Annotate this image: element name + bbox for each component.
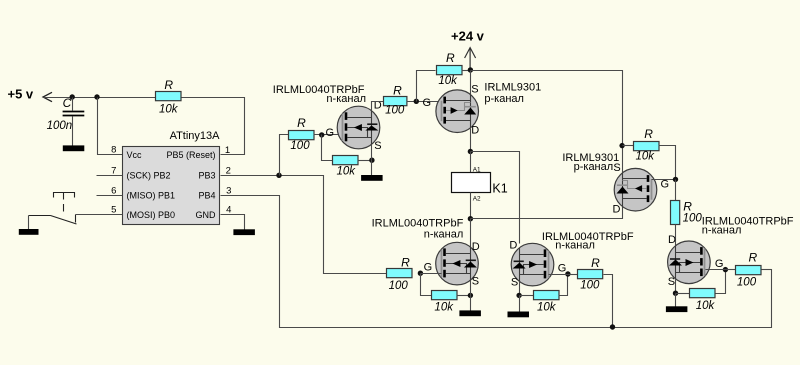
svg-text:R: R xyxy=(446,51,455,65)
svg-text:S: S xyxy=(374,140,381,152)
wire button ground lead xyxy=(28,216,30,230)
resistor R7 100 xyxy=(671,201,680,225)
svg-text:100: 100 xyxy=(737,277,757,289)
transistor Q1 IRLML0040TRPbF n-channel xyxy=(337,106,380,149)
svg-text:10k: 10k xyxy=(636,150,656,162)
svg-text:R: R xyxy=(748,251,757,265)
svg-text:10k: 10k xyxy=(438,75,458,87)
wire gate node to R7 xyxy=(675,180,677,201)
wire Q3 source to ground xyxy=(470,281,472,311)
svg-text:100: 100 xyxy=(389,280,409,292)
ground Q6 ground xyxy=(666,306,688,312)
node PB4 bus junction xyxy=(610,324,615,329)
node Q6 gate node xyxy=(723,267,728,272)
svg-text:S: S xyxy=(668,276,675,288)
svg-text:R: R xyxy=(644,127,653,141)
resistor R3 10k xyxy=(333,156,359,165)
wire relay A2 down xyxy=(470,193,472,219)
transistor Q4 IRLML0040TRPbF n-channel mirrored xyxy=(511,243,554,286)
svg-text:1: 1 xyxy=(225,145,230,156)
+24 arrow xyxy=(465,48,476,58)
wire R5 to +24 xyxy=(462,70,471,72)
svg-text:n-канал: n-канал xyxy=(555,240,595,252)
svg-text:IRLML9301: IRLML9301 xyxy=(484,82,541,94)
svg-text:n-канал: n-канал xyxy=(424,228,464,240)
svg-text:S: S xyxy=(511,277,518,289)
svg-text:100: 100 xyxy=(683,213,703,225)
svg-text:10k: 10k xyxy=(159,103,179,115)
svg-text:G: G xyxy=(558,263,567,275)
svg-text:6: 6 xyxy=(111,186,116,197)
transistor Q5 IRLML9301 p-channel mirrored xyxy=(614,168,657,211)
transistor Q6 IRLML0040TRPbF n-channel mirrored xyxy=(668,241,711,284)
resistor R2 100 xyxy=(289,131,315,140)
svg-text:100: 100 xyxy=(290,140,310,152)
svg-text:100: 100 xyxy=(385,105,405,117)
wire Q5 gate wire xyxy=(652,179,676,181)
svg-text:G: G xyxy=(423,97,432,109)
wire R9 to Q3 source xyxy=(457,295,471,297)
wire +5 to pin1 via R xyxy=(182,98,245,155)
node PB3 branch xyxy=(276,173,281,178)
svg-text:R: R xyxy=(591,256,600,270)
svg-text:D: D xyxy=(668,234,676,246)
svg-text:PB4: PB4 xyxy=(198,191,215,201)
node Q1 gate node xyxy=(319,132,324,137)
svg-text:R: R xyxy=(393,83,402,97)
wire R11 up to Q4 gate node xyxy=(559,275,568,296)
svg-text:10k: 10k xyxy=(537,302,557,314)
resistor R4 100 xyxy=(384,97,407,106)
wire gate node to R10 xyxy=(568,274,579,276)
wire R2 to Q1 gate xyxy=(314,134,343,136)
wire R10 to PB4 bus xyxy=(604,275,613,328)
svg-text:4: 4 xyxy=(226,204,231,215)
wire R8 to Q3 gate xyxy=(421,273,442,275)
svg-text:G: G xyxy=(715,258,724,270)
resistor R1 10k reset pullup xyxy=(156,92,182,101)
node +24 node xyxy=(468,67,473,72)
relay K1 coil xyxy=(452,173,491,193)
node Q1 source node xyxy=(369,158,374,163)
wire R6 down to Q5 gate node xyxy=(659,146,676,180)
node Q2 gate node xyxy=(414,99,419,104)
svg-text:R: R xyxy=(401,256,410,270)
IC U1 ATtiny13A xyxy=(123,147,220,225)
wire R12 to bus corner xyxy=(762,269,772,271)
ground button ground xyxy=(19,229,39,235)
resistor R5 10k xyxy=(437,66,463,75)
wire A2 node to Q3 drain xyxy=(470,219,472,248)
wire Q1 gate to R3 xyxy=(322,135,333,161)
wire +24 bus to Q5 source xyxy=(471,71,623,173)
wire PB4 bus xyxy=(221,196,772,328)
resistor R6 10k xyxy=(634,142,660,151)
transistor Q3 IRLML0040TRPbF n-channel xyxy=(436,242,479,285)
ground Q1 ground xyxy=(361,175,383,181)
wire Q6 source to R13 xyxy=(676,293,691,295)
wire R7 to Q6 drain xyxy=(675,225,677,247)
resistor R12 100 xyxy=(736,266,762,275)
svg-text:100n: 100n xyxy=(47,120,73,132)
resistor R9 10k xyxy=(432,291,458,300)
ground Q3 ground xyxy=(459,310,481,316)
svg-text:n-канал: n-канал xyxy=(702,225,742,237)
wire Q6 source to ground xyxy=(675,294,677,307)
wire PB3 net to Q3 xyxy=(221,176,387,274)
svg-text:8: 8 xyxy=(111,145,116,156)
wire A2 node to Q5 drain xyxy=(471,205,623,219)
resistor R13 10k xyxy=(690,289,716,298)
wire Q2 drain down xyxy=(470,129,472,152)
resistor R8 100 xyxy=(387,269,413,278)
svg-text:G: G xyxy=(661,179,670,191)
svg-text:+5 v: +5 v xyxy=(8,87,34,102)
svg-text:A2: A2 xyxy=(473,195,481,202)
wire R3 to Q1 source xyxy=(358,160,372,162)
node Q5 gate node xyxy=(673,177,678,182)
node Q4 source node xyxy=(516,293,521,298)
wire Q6 source down xyxy=(675,280,677,294)
svg-text:ATtiny13A: ATtiny13A xyxy=(170,130,221,142)
node +24 R6 node xyxy=(619,143,624,148)
svg-text:D: D xyxy=(472,241,480,253)
wire Q4 source to ground xyxy=(519,296,521,312)
svg-text:R: R xyxy=(683,200,692,214)
svg-text:5: 5 xyxy=(111,204,116,215)
pushbutton S1 xyxy=(29,193,77,225)
wire Q4 gate wire xyxy=(549,274,568,276)
resistor R10 100 xyxy=(578,270,603,279)
wire +24 to R6 xyxy=(623,145,634,147)
node cap junction xyxy=(70,94,75,99)
wire +24 to Q2 source xyxy=(470,71,472,96)
svg-text:D: D xyxy=(471,124,479,136)
wire Q4 source to R11 xyxy=(520,295,534,297)
wire to relay A1 xyxy=(470,152,472,173)
+5v arrow xyxy=(43,92,52,101)
svg-text:S: S xyxy=(471,83,478,95)
wire pin6 stub xyxy=(97,195,123,197)
node Q6 source node xyxy=(673,291,678,296)
svg-text:10k: 10k xyxy=(696,300,716,312)
svg-text:(MISO) PB1: (MISO) PB1 xyxy=(127,191,176,201)
svg-text:(MOSI) PB0: (MOSI) PB0 xyxy=(127,210,176,220)
svg-text:Vcc: Vcc xyxy=(127,150,143,160)
wire Q3 gate to R9 xyxy=(421,274,432,296)
wire R13 up to Q6 gate node xyxy=(716,270,726,294)
svg-text:A1: A1 xyxy=(473,167,481,174)
wire Q2 gate pullup link xyxy=(417,71,436,102)
wire Q4 source down xyxy=(519,282,521,296)
svg-text:100: 100 xyxy=(580,279,600,291)
wire Q6 gate wire xyxy=(706,269,726,271)
svg-text:10k: 10k xyxy=(337,166,357,178)
node Q3 source node xyxy=(468,293,473,298)
wire cap bottom lead xyxy=(72,117,74,146)
svg-text:10k: 10k xyxy=(434,302,454,314)
svg-text:R: R xyxy=(164,78,173,92)
svg-text:PB3: PB3 xyxy=(198,171,215,181)
svg-text:p-канал: p-канал xyxy=(484,93,524,105)
svg-text:PB5 (Reset): PB5 (Reset) xyxy=(166,150,215,160)
svg-text:D: D xyxy=(613,204,621,216)
svg-text:3: 3 xyxy=(226,186,231,197)
ground MCU ground xyxy=(233,229,255,235)
ground capacitor ground xyxy=(63,145,85,151)
node relay A1 node xyxy=(468,149,473,154)
ground Q4 ground xyxy=(508,312,530,318)
resistor R11 10k xyxy=(534,291,560,300)
wire pin4 to ground xyxy=(221,215,245,230)
transistor Q2 IRLML9301 p-channel xyxy=(436,90,479,133)
svg-text:D: D xyxy=(509,239,517,251)
wire PB3 branch to R2 xyxy=(280,135,289,176)
node Q4 gate node xyxy=(565,271,570,276)
node Q3 gate node xyxy=(418,271,423,276)
svg-text:G: G xyxy=(326,127,335,139)
svg-text:S: S xyxy=(613,162,620,174)
svg-text:7: 7 xyxy=(111,165,116,176)
wire +5 rail left xyxy=(44,97,157,99)
wire pin5 wire xyxy=(76,214,123,216)
svg-text:n-канал: n-канал xyxy=(326,93,366,105)
svg-text:G: G xyxy=(424,261,433,273)
wire pin7 stub xyxy=(97,175,123,177)
svg-text:K1: K1 xyxy=(492,181,507,195)
wire A1 node to Q4 drain xyxy=(471,152,520,244)
svg-text:GND: GND xyxy=(196,210,217,220)
svg-text:R: R xyxy=(297,116,306,130)
wire Q1 drain to R4 xyxy=(372,102,384,111)
wire Q1 source to ground xyxy=(371,145,373,176)
node relay A2 node xyxy=(468,216,473,221)
svg-text:S: S xyxy=(472,276,479,288)
svg-text:2: 2 xyxy=(226,165,231,176)
wire Vcc feed xyxy=(98,98,123,155)
wire gate node to R12 xyxy=(726,269,736,271)
svg-text:C: C xyxy=(63,96,72,110)
svg-text:p-канал: p-канал xyxy=(574,161,614,173)
node vcc junction xyxy=(94,94,99,99)
svg-text:(SCK) PB2: (SCK) PB2 xyxy=(127,171,171,181)
wire R4 to Q2 gate xyxy=(407,101,442,103)
svg-text:+24 v: +24 v xyxy=(451,28,485,43)
wire cap top lead xyxy=(72,98,74,111)
